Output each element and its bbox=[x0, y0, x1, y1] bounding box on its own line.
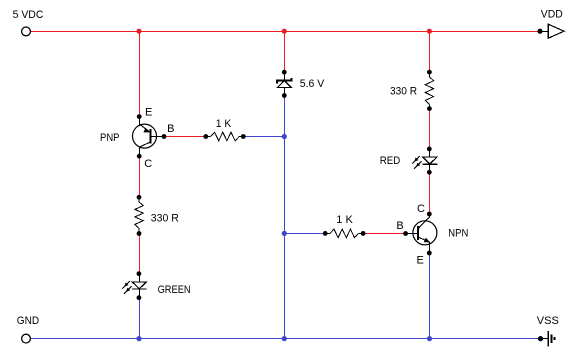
svg-text:E: E bbox=[417, 255, 424, 267]
svg-text:E: E bbox=[145, 106, 152, 118]
svg-text:1 K: 1 K bbox=[216, 118, 232, 130]
svg-text:VDD: VDD bbox=[541, 8, 563, 20]
svg-text:B: B bbox=[167, 123, 174, 135]
svg-text:RED: RED bbox=[380, 155, 401, 167]
svg-text:5.6 V: 5.6 V bbox=[300, 78, 325, 90]
svg-text:C: C bbox=[144, 158, 152, 170]
svg-text:GND: GND bbox=[17, 315, 39, 327]
svg-text:5 VDC: 5 VDC bbox=[13, 9, 44, 21]
svg-text:1 K: 1 K bbox=[336, 214, 353, 226]
svg-text:GREEN: GREEN bbox=[158, 284, 191, 296]
svg-text:VSS: VSS bbox=[537, 315, 559, 327]
svg-text:330 R: 330 R bbox=[390, 86, 417, 98]
svg-text:NPN: NPN bbox=[448, 227, 468, 239]
svg-text:PNP: PNP bbox=[100, 132, 120, 144]
svg-text:B: B bbox=[396, 220, 403, 232]
svg-text:330 R: 330 R bbox=[151, 213, 179, 225]
svg-text:C: C bbox=[417, 203, 425, 215]
